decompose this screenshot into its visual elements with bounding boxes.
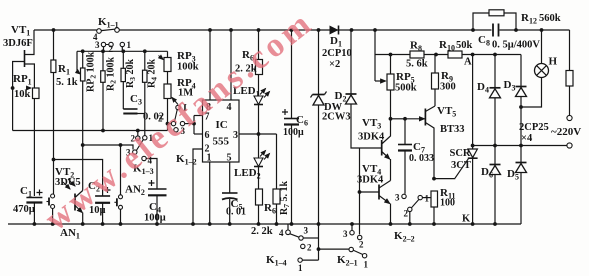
zener diode DW xyxy=(311,30,327,224)
svg-text:K1–1: K1–1 xyxy=(98,16,119,30)
svg-text:LED2: LED2 xyxy=(234,167,261,181)
label C2 xyxy=(88,180,100,194)
svg-text:2CW3: 2CW3 xyxy=(322,112,351,123)
wire right edge + fuse xyxy=(566,30,573,115)
label VT4 xyxy=(362,163,381,177)
label 470u xyxy=(13,204,35,215)
label R11 xyxy=(440,187,456,201)
label 2CP10 xyxy=(322,48,352,59)
label D3 xyxy=(504,79,516,93)
potentiometer RP5 xyxy=(387,53,394,121)
svg-text:2: 2 xyxy=(359,240,364,250)
svg-text:D4: D4 xyxy=(477,81,489,95)
SCR 3CT xyxy=(455,55,478,225)
svg-text:0. 5μ/400V: 0. 5μ/400V xyxy=(492,40,540,51)
svg-text:5: 5 xyxy=(227,153,232,164)
label 0.033 xyxy=(409,153,434,164)
svg-text:1: 1 xyxy=(298,263,303,273)
label K1-3 xyxy=(133,163,154,177)
resistor R12 loop xyxy=(473,10,516,30)
label R1 xyxy=(58,63,70,77)
label D6 xyxy=(481,166,493,180)
label LED1 xyxy=(233,85,260,99)
label VT3 xyxy=(362,117,381,131)
wire pin2 to ground xyxy=(193,149,203,224)
label VT4 3DK4 xyxy=(357,175,384,186)
node A xyxy=(464,57,472,68)
op-amp IC 555 timer xyxy=(203,100,240,164)
svg-text:3: 3 xyxy=(395,193,400,203)
label 3DJ6F xyxy=(3,38,33,49)
capacitor C3 xyxy=(123,109,145,114)
svg-text:1: 1 xyxy=(207,153,212,164)
capacitor C4 xyxy=(146,159,166,225)
label VT2 xyxy=(55,166,74,180)
LED LED1 xyxy=(254,89,270,159)
label 300 xyxy=(440,82,456,93)
svg-text:4: 4 xyxy=(279,228,284,238)
svg-text:3: 3 xyxy=(95,40,100,50)
phototransistor VT2 (3DU5) xyxy=(63,145,83,224)
svg-text:5. 6k: 5. 6k xyxy=(406,59,428,70)
label 100k xyxy=(177,62,199,73)
potentiometer RP4 xyxy=(164,84,178,131)
transistor VT3 (3DK4) xyxy=(360,119,391,181)
label C3 xyxy=(130,93,142,107)
label H xyxy=(549,56,558,68)
svg-text:500k: 500k xyxy=(395,83,417,94)
svg-text:K: K xyxy=(462,214,471,225)
svg-text:6: 6 xyxy=(205,130,210,141)
switch K1-3 xyxy=(126,129,154,166)
resistor R1 xyxy=(51,30,56,160)
svg-text:100μ: 100μ xyxy=(144,213,166,224)
switch K2-1 xyxy=(319,224,369,270)
label RP1 xyxy=(13,73,32,87)
label 3DU5 xyxy=(55,177,81,188)
label 2CP25 xyxy=(519,122,549,133)
svg-text:R7 5. 1k: R7 5. 1k xyxy=(279,181,291,215)
resistor R11 xyxy=(431,191,438,224)
label LED2 xyxy=(234,167,261,181)
transistor VT5 (BT33 UJT) xyxy=(391,106,436,179)
wire pin4 to rail xyxy=(230,30,232,100)
svg-text:2CP10: 2CP10 xyxy=(322,48,352,59)
label x2 xyxy=(329,59,340,70)
label 100 xyxy=(440,198,455,209)
svg-text:C3: C3 xyxy=(130,93,142,107)
svg-text:K2–2: K2–2 xyxy=(394,230,415,244)
label 0.01 xyxy=(226,207,246,218)
potentiometer RP3 xyxy=(159,51,172,84)
wire top supply rail left segment xyxy=(34,28,97,32)
capacitor C1 xyxy=(26,190,42,225)
switch K1-2 xyxy=(168,103,196,136)
svg-text:1: 1 xyxy=(425,194,430,204)
svg-text:2: 2 xyxy=(404,209,409,219)
svg-text:2CP25: 2CP25 xyxy=(519,122,549,133)
label 10u xyxy=(89,205,106,216)
label C1 xyxy=(20,185,32,199)
svg-text:3DJ6F: 3DJ6F xyxy=(3,38,33,49)
wire resistor bus xyxy=(77,49,168,53)
svg-text:2: 2 xyxy=(307,243,312,253)
svg-text:3: 3 xyxy=(304,226,309,236)
capacitor C8 xyxy=(493,24,499,37)
potentiometer RP1 xyxy=(11,86,39,196)
svg-text:H: H xyxy=(549,56,558,68)
label K2-2 xyxy=(394,230,415,244)
wire gate node xyxy=(432,177,455,181)
svg-text:3DK4: 3DK4 xyxy=(357,175,384,186)
resistor R5 xyxy=(256,30,263,96)
wire RP1 wiper net xyxy=(13,129,168,133)
label RP5 xyxy=(396,71,415,85)
resistor R6 xyxy=(256,189,263,224)
label 10k xyxy=(14,89,31,100)
switch K2-2 xyxy=(395,193,431,225)
label D5 xyxy=(507,168,519,182)
svg-text:BT33: BT33 xyxy=(440,124,465,135)
svg-text:×2: ×2 xyxy=(329,59,340,70)
svg-text:VT5: VT5 xyxy=(437,105,456,119)
label R12 560k xyxy=(521,12,561,26)
svg-text:K1–4: K1–4 xyxy=(266,254,287,268)
label C7 xyxy=(413,141,425,155)
label 5.6k xyxy=(406,59,428,70)
svg-text:50k: 50k xyxy=(456,40,473,51)
label R7 5.1k xyxy=(279,181,291,215)
push button AN1 xyxy=(47,158,56,224)
label K1-2 xyxy=(176,153,197,167)
label R3 20k xyxy=(125,59,137,88)
svg-text:VT1: VT1 xyxy=(11,24,30,38)
label C8 xyxy=(478,34,490,48)
svg-text:10k: 10k xyxy=(14,89,31,100)
svg-text:IC: IC xyxy=(216,119,228,131)
label RP4 xyxy=(177,77,196,91)
label RP2 100k xyxy=(86,51,98,92)
label contact 2 of K1-2 xyxy=(158,114,163,124)
label K2-1 xyxy=(337,254,358,268)
label 3CT xyxy=(451,160,471,171)
push button AN2 xyxy=(114,145,122,224)
label DW xyxy=(324,102,343,113)
svg-text:RP1: RP1 xyxy=(13,73,32,87)
wire VT3 base to K2-1 xyxy=(359,148,361,234)
terminal AC2 xyxy=(567,143,572,148)
wire bus to RP2 wiper xyxy=(77,51,80,74)
label R8 xyxy=(410,40,422,54)
label 5.1k xyxy=(56,77,78,88)
svg-text:RP2 100k: RP2 100k xyxy=(86,51,98,92)
svg-text:C6: C6 xyxy=(296,114,308,128)
svg-text:2. 2k: 2. 2k xyxy=(251,226,273,237)
svg-text:~220V: ~220V xyxy=(551,126,581,138)
label D1 xyxy=(330,35,342,49)
wire pin3 node xyxy=(239,132,277,136)
label AN2 xyxy=(125,184,145,198)
svg-text:C8: C8 xyxy=(478,34,490,48)
label BT33 xyxy=(440,124,465,135)
label VT1 xyxy=(11,24,30,38)
resistor R9 xyxy=(432,55,439,107)
svg-text:3: 3 xyxy=(343,229,348,239)
wire R8-R10 rail xyxy=(375,53,519,57)
svg-text:5. 1k: 5. 1k xyxy=(56,77,78,88)
svg-text:AN2: AN2 xyxy=(125,184,145,198)
svg-text:R12: R12 xyxy=(521,12,537,26)
label K1-1 xyxy=(98,16,119,30)
svg-text:VT3: VT3 xyxy=(362,117,381,131)
label C5 xyxy=(231,198,243,212)
svg-text:R1: R1 xyxy=(58,63,70,77)
wire pin1 to ground xyxy=(209,162,211,224)
wire pin8 to rail xyxy=(209,30,211,100)
wire AC line xyxy=(473,144,567,148)
label VT5 xyxy=(437,105,456,119)
svg-text:555: 555 xyxy=(213,136,230,148)
svg-text:560k: 560k xyxy=(539,13,561,24)
svg-text:R4 20k: R4 20k xyxy=(147,59,159,88)
label 100u xyxy=(144,213,166,224)
label R5 2.2k xyxy=(235,64,257,75)
label 500k xyxy=(395,83,417,94)
svg-text:D2: D2 xyxy=(335,90,347,104)
lamp H xyxy=(521,30,549,107)
terminal AC1 xyxy=(567,115,572,120)
diode D5 xyxy=(516,146,527,225)
label 0.02 xyxy=(143,112,164,123)
resistor R4 xyxy=(143,51,148,135)
svg-text:D1: D1 xyxy=(330,35,342,49)
svg-text:0. 033: 0. 033 xyxy=(409,153,434,164)
svg-text:A: A xyxy=(464,57,472,68)
label ~220V xyxy=(551,126,581,138)
svg-text:2: 2 xyxy=(109,44,114,54)
svg-text:R2 100k: R2 100k xyxy=(106,57,118,91)
label AN1 xyxy=(60,227,80,241)
svg-text:100: 100 xyxy=(440,198,455,209)
svg-text:D3: D3 xyxy=(504,79,516,93)
svg-text:300: 300 xyxy=(440,82,456,93)
switch K1-4 xyxy=(279,224,320,273)
resistor R8 xyxy=(410,51,424,58)
label 1M xyxy=(178,88,193,99)
wire RP5 top xyxy=(375,30,386,81)
label C8 value xyxy=(492,40,540,51)
capacitor C5 on pin5 xyxy=(222,162,238,224)
wire bottom ground rail xyxy=(8,222,521,226)
label D2 xyxy=(335,90,347,104)
diode D1 on rail xyxy=(330,26,339,35)
capacitor C6 xyxy=(282,30,299,224)
resistor R10 xyxy=(448,51,462,58)
svg-text:470µ: 470µ xyxy=(13,204,35,215)
svg-text:3DK4: 3DK4 xyxy=(358,132,385,143)
label C6 xyxy=(296,114,308,128)
diode D2 xyxy=(346,30,360,148)
label K1-4 xyxy=(266,254,287,268)
transistor VT4 (3DK4) xyxy=(358,181,391,225)
svg-text:C1: C1 xyxy=(20,185,32,199)
resistor R7 xyxy=(273,134,280,224)
label R6 2.2k xyxy=(251,226,273,237)
svg-text:K2–1: K2–1 xyxy=(337,254,358,268)
diode D4 xyxy=(490,55,501,146)
svg-text:1: 1 xyxy=(364,260,369,270)
label x4 xyxy=(521,133,533,144)
capacitor C2 xyxy=(95,187,110,224)
transistor VT1 (FET 3DJ6F) xyxy=(13,30,35,88)
label R10 50k xyxy=(439,39,473,53)
label R9 xyxy=(441,70,453,84)
svg-text:3: 3 xyxy=(233,130,238,141)
potentiometer RP2 xyxy=(81,51,86,145)
switch K1-1 xyxy=(93,28,132,54)
svg-text:100k: 100k xyxy=(177,62,199,73)
diode D3 xyxy=(516,55,527,146)
label SCR xyxy=(450,148,471,159)
resistor R3 xyxy=(121,51,125,109)
wire VT2 collector net xyxy=(81,143,133,149)
svg-text:D6: D6 xyxy=(481,166,493,180)
wire pins 7-6 bracket xyxy=(194,116,203,135)
svg-text:R3 20k: R3 20k xyxy=(125,59,137,88)
node K xyxy=(462,214,471,225)
label 2CW3 xyxy=(322,112,351,123)
label C4 xyxy=(149,201,161,215)
svg-text:×4: ×4 xyxy=(521,133,533,144)
label D4 xyxy=(477,81,489,95)
diode D6 xyxy=(490,146,501,225)
label R4 20k xyxy=(147,59,159,88)
svg-text:1: 1 xyxy=(127,40,132,50)
wire top supply rail main segment xyxy=(120,28,570,32)
label C6 100u xyxy=(283,127,304,138)
svg-text:SCR: SCR xyxy=(450,148,471,159)
label R2 100k xyxy=(106,57,118,91)
svg-text:R8: R8 xyxy=(410,40,422,54)
label R6 xyxy=(264,202,276,216)
label R5 xyxy=(242,49,254,63)
LED LED2 xyxy=(254,151,270,190)
svg-text:3CT: 3CT xyxy=(451,160,471,171)
label VT3 3DK4 xyxy=(358,132,385,143)
capacitor C7 xyxy=(398,117,412,194)
label RP3 xyxy=(177,50,196,64)
svg-text:0. 01: 0. 01 xyxy=(226,207,246,218)
svg-text:R10: R10 xyxy=(439,39,455,53)
wire R1 to C2 xyxy=(54,160,103,197)
svg-text:100μ: 100μ xyxy=(283,127,304,138)
resistor R2 xyxy=(101,51,105,130)
